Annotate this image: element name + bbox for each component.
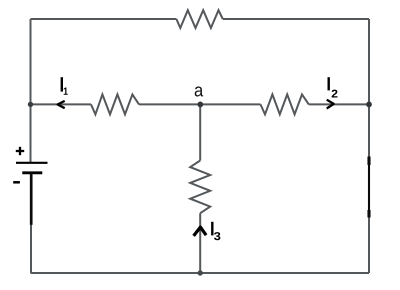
wire middle horizontal left segment bbox=[31, 103, 92, 105]
resistor middle-right bbox=[261, 94, 309, 114]
battery positive plate bbox=[16, 162, 48, 164]
arrow I1 (pointing left) bbox=[58, 101, 65, 108]
node a label bbox=[195, 87, 204, 97]
wire center vertical lower bbox=[199, 213, 201, 273]
battery negative lead bbox=[30, 173, 33, 225]
node a junction dot bbox=[197, 102, 203, 108]
wire center vertical upper bbox=[199, 104, 201, 160]
node left junction bbox=[28, 102, 33, 107]
battery plus sign bbox=[16, 147, 24, 155]
node right junction bbox=[366, 102, 372, 108]
label I2 bbox=[329, 77, 338, 97]
label I1 bbox=[62, 77, 68, 95]
wire right side bbox=[368, 19, 370, 273]
arrow I3 (pointing up) bbox=[194, 227, 207, 236]
battery minus sign bbox=[13, 181, 20, 184]
wire left lower bbox=[30, 224, 32, 273]
resistor middle-left bbox=[91, 94, 139, 114]
wire left upper bbox=[30, 19, 32, 162]
arrow I2 (pointing right) bbox=[327, 100, 334, 109]
battery negative plate bbox=[22, 171, 42, 174]
label I3 bbox=[212, 222, 220, 240]
resistor top bbox=[176, 10, 222, 28]
wire top (with top resistor leads) bbox=[31, 18, 370, 20]
wire middle horizontal center segment bbox=[139, 103, 261, 105]
wire bottom bbox=[31, 272, 370, 274]
resistor center vertical bbox=[190, 161, 210, 214]
node bottom junction bbox=[198, 270, 203, 275]
wire right emphasized black segment bbox=[368, 157, 370, 218]
wire middle horizontal right segment bbox=[309, 103, 369, 105]
